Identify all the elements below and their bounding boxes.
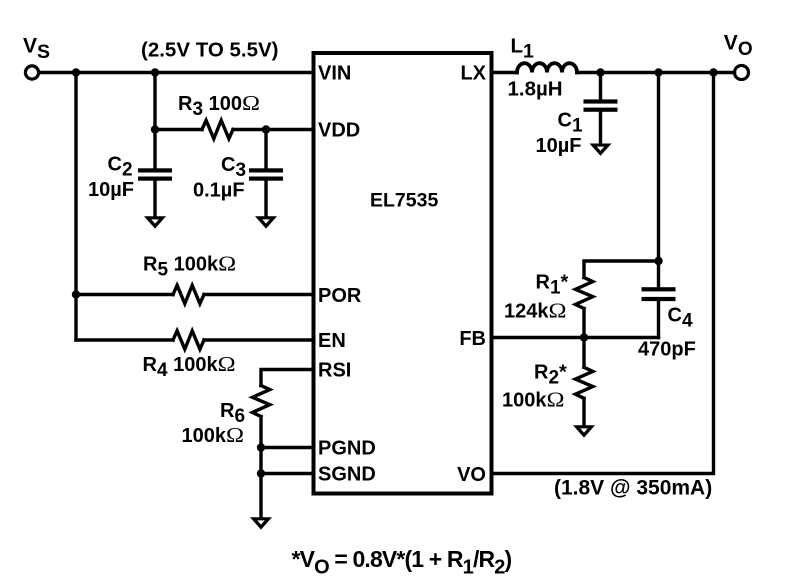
wire PGND row [261, 446, 312, 449]
wire R1 top link [584, 261, 659, 278]
node: FB junction [580, 333, 588, 341]
ground (C1) [590, 144, 612, 156]
resistor R1 [575, 278, 592, 309]
svg-text:LX: LX [460, 63, 486, 85]
svg-text:10µF: 10µF [536, 135, 582, 157]
node: PGND junction [257, 443, 265, 451]
node: VDD/C2 junction [151, 125, 159, 133]
wire FB row [492, 336, 659, 339]
svg-text:VO: VO [457, 464, 486, 486]
svg-text:VIN: VIN [318, 63, 351, 85]
resistor R5 [173, 285, 204, 303]
svg-text:(2.5V TO 5.5V): (2.5V TO 5.5V) [141, 39, 278, 62]
wire EN row left segment [76, 338, 173, 341]
wire VO row to output riser [492, 73, 714, 474]
wire top rail left: Vs to VIN pin [39, 71, 312, 74]
wire R6 bottom through PGND/SGND to ground [259, 417, 262, 522]
wire VDD row segment left [155, 128, 202, 131]
resistor R6 [252, 386, 269, 417]
node: VIN junction top [151, 68, 159, 76]
terminal Vs [25, 66, 38, 79]
svg-text:0.1µF: 0.1µF [193, 180, 245, 202]
node: Vs junction [72, 68, 80, 76]
wire POR row right segment [204, 293, 312, 296]
node: SGND junction [257, 469, 265, 477]
svg-text:EN: EN [318, 330, 346, 352]
node: FB-riser junction [654, 68, 662, 76]
wire VIN drop to VDD node [153, 73, 156, 130]
wire top rail right: inductor to Vo [577, 71, 735, 74]
svg-text:10µF: 10µF [88, 179, 134, 201]
svg-text:(1.8V @ 350mA): (1.8V @ 350mA) [554, 477, 712, 500]
svg-text:PGND: PGND [318, 438, 376, 460]
IC box EL7535 [314, 53, 492, 494]
wire SGND row [261, 472, 312, 475]
wire POR row left segment [76, 293, 173, 296]
resistor R2 [575, 338, 592, 429]
resistor R3 [202, 120, 233, 138]
svg-text:FB: FB [459, 328, 486, 350]
svg-text:1.8µH: 1.8µH [508, 78, 563, 101]
svg-text:100kΩ: 100kΩ [182, 423, 245, 447]
svg-text:VDD: VDD [318, 120, 360, 142]
node: VO-riser junction [709, 68, 717, 76]
capacitor C3 [249, 130, 283, 220]
terminal Vo [735, 66, 749, 80]
ground (R2) [573, 425, 595, 437]
wire VDD row segment right [233, 128, 312, 131]
node: VDD/C3 junction [262, 125, 270, 133]
inductor L1 [517, 63, 577, 72]
wire RSI row to R6 top [261, 370, 312, 386]
node: POR junction [72, 290, 80, 298]
ground (C3) [255, 216, 277, 228]
ground (R6/SGND) [250, 517, 272, 529]
svg-text:124kΩ: 124kΩ [504, 298, 567, 322]
svg-text:SGND: SGND [318, 464, 376, 486]
svg-text:470pF: 470pF [638, 339, 696, 361]
svg-text:RSI: RSI [318, 360, 351, 382]
capacitor C2 [138, 130, 172, 220]
capacitor C1 [584, 73, 618, 147]
wire output riser to FB network (down to C4 node) [657, 73, 660, 262]
svg-text:100kΩ: 100kΩ [502, 388, 565, 412]
svg-text:POR: POR [318, 285, 362, 307]
wire R1 bottom to FB node [582, 309, 585, 338]
capacitor C4 [642, 261, 676, 338]
wire EN row right segment [204, 338, 312, 341]
ground (C2) [144, 216, 166, 228]
wire left drop from Vs junction to EN row [74, 73, 77, 341]
wire LX to inductor [492, 71, 518, 74]
node: C1 junction [596, 68, 604, 76]
node: R1/C4 top junction [654, 257, 662, 265]
resistor R4 [173, 331, 204, 349]
svg-text:EL7535: EL7535 [370, 190, 438, 212]
